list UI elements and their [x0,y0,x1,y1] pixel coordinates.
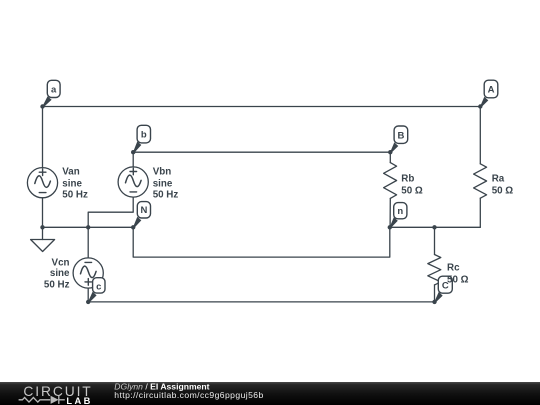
resistor Rc [428,255,441,285]
svg-text:Rb: Rb [401,173,414,184]
node b [131,125,151,154]
svg-text:sine: sine [153,178,173,189]
wire N step down across to n [133,227,390,257]
wire a corner down to Van top [42,107,44,168]
junction Rc top [432,225,436,229]
resistor Ra [474,164,487,198]
wire neutral left horizontal [43,226,134,228]
label Vbn value [153,167,179,201]
wire b corner down to Vbn top [132,152,134,167]
svg-text:a: a [51,84,57,95]
label Van value [62,167,88,201]
svg-text:Ra: Ra [492,173,505,184]
label Rb value [401,173,423,196]
label Rc value [447,262,469,285]
wire Rb bottom to n [389,198,391,227]
footer title text [114,381,263,400]
svg-text:Van: Van [62,167,79,178]
svg-text:50 Hz: 50 Hz [153,190,179,201]
node c [86,278,105,304]
svg-text:Vcn: Vcn [52,258,70,269]
svg-text:A: A [488,85,495,96]
wire bottom horizontal c to C [88,301,434,303]
svg-text:sine: sine [50,268,70,279]
wire Vcn bottom down [87,288,89,302]
svg-text:LAB: LAB [66,396,92,405]
wire A corner down to Ra top [479,107,481,164]
node A [478,80,498,109]
wire n horizontal to Ra bottom [390,226,481,228]
svg-text:c: c [96,281,101,292]
svg-text:N: N [140,205,147,216]
node B [388,126,408,154]
wire phase A top horizontal [43,106,481,108]
voltage source Vcn [73,258,103,288]
node a [40,80,60,108]
wire Van bottom to neutral [42,198,44,228]
label Vcn value [44,258,70,291]
wire B corner down to Rb top [389,152,391,162]
wire n junction down to Rc top [434,227,436,254]
wire Rc bottom to C [434,285,436,302]
svg-text:Rc: Rc [447,262,460,273]
wire neutral down to Vcn top [87,227,89,258]
svg-text:http://circuitlab.com/cc9g6ppg: http://circuitlab.com/cc9g6ppguj56b [114,390,263,400]
svg-text:b: b [141,130,147,141]
svg-text:50 Hz: 50 Hz [62,190,88,201]
footer bar [0,382,540,405]
wire b corner horizontal to B [133,151,390,153]
node n [388,203,407,230]
junction Vcn neutral [86,225,90,229]
resistor Rb [384,163,397,199]
svg-text:50 Ω: 50 Ω [401,185,423,196]
svg-text:n: n [397,206,403,217]
node N [131,202,151,230]
label Ra value [492,173,514,196]
svg-text:50 Ω: 50 Ω [492,185,514,196]
ground [31,227,55,251]
junction Van neutral [40,225,44,229]
wire Ra bottom down [479,198,481,227]
svg-text:sine: sine [62,178,82,189]
logo CIRCUIT LAB [19,384,93,405]
svg-text:50 Hz: 50 Hz [44,279,70,290]
node C [432,276,452,304]
svg-text:50 Ω: 50 Ω [447,275,469,286]
svg-text:Vbn: Vbn [153,167,172,178]
wire Vbn bottom step to neutral [88,197,133,227]
voltage source Vbn [118,167,148,197]
voltage source Van [27,168,57,198]
svg-text:B: B [397,130,404,141]
